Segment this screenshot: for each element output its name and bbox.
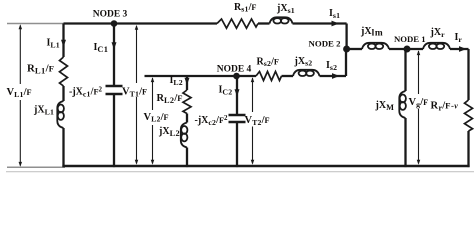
- wire: [282, 75, 294, 77]
- branch C2 vertical wire: [236, 76, 238, 114]
- wire: [450, 48, 469, 50]
- wire rise to node 2: [345, 49, 347, 76]
- wire row2 bus: [145, 75, 257, 77]
- branch L2 vertical wire: [186, 76, 188, 90]
- arrow Ir: [459, 46, 467, 52]
- voltage arrow Vg/F: [418, 51, 420, 164]
- wire: [62, 128, 64, 167]
- voltage arrow VT2/F: [252, 78, 254, 164]
- wire node2 to node1: [347, 48, 362, 50]
- svg-text:NODE 1: NODE 1: [394, 34, 426, 44]
- inductor jXS2: [293, 70, 320, 76]
- node NODE 2: [343, 46, 350, 53]
- arrow IS1: [332, 21, 340, 27]
- wire drop to node 2: [345, 24, 347, 50]
- wire: [62, 86, 64, 101]
- svg-text:jXlm: jXlm: [360, 26, 383, 39]
- arrow IS2: [332, 73, 340, 79]
- svg-text:RL1/F: RL1/F: [27, 63, 54, 76]
- node NODE 4: [233, 73, 240, 80]
- arrow IL2: [185, 78, 190, 85]
- node NODE 1: [404, 46, 411, 53]
- wire: [186, 114, 188, 123]
- svg-text:NODE 3: NODE 3: [93, 10, 128, 20]
- wire: [186, 148, 188, 168]
- wire: [258, 22, 270, 24]
- horizontal page rule: [6, 171, 474, 173]
- wire: [467, 131, 469, 167]
- wire top-left gray feed: [7, 23, 64, 25]
- resistor Rr/F-v: [465, 100, 473, 131]
- branch rotor vertical wire: [467, 49, 469, 100]
- wire bottom-left gray return: [7, 166, 65, 168]
- resistor RL1/F: [60, 57, 68, 86]
- voltage arrow VT1/F: [136, 26, 138, 164]
- wire: [113, 95, 115, 167]
- wire: [293, 22, 347, 24]
- resistor RL2/F: [183, 90, 191, 114]
- wire: [389, 48, 423, 50]
- inductor jXM: [399, 91, 406, 118]
- inductor jXS1: [270, 17, 293, 23]
- inductor jXL2: [181, 123, 188, 148]
- wire: [320, 75, 347, 77]
- node NODE 3: [111, 20, 118, 27]
- arrow IC2: [235, 89, 240, 96]
- arrow IC1: [112, 42, 117, 49]
- branch L1 vertical wire: [62, 24, 64, 58]
- wire: [236, 123, 238, 167]
- svg-text:NODE 2: NODE 2: [309, 38, 342, 48]
- voltage arrow VL1/F: [19, 26, 21, 166]
- wire top bus: [64, 22, 218, 24]
- inductor jXlm: [362, 43, 389, 49]
- arrow IL1: [61, 40, 66, 47]
- wire: [404, 118, 406, 167]
- wire bottom bus: [62, 165, 469, 167]
- inductor jXr: [423, 43, 450, 49]
- svg-text:NODE 4: NODE 4: [217, 65, 252, 75]
- resistor Rs1/F: [217, 19, 258, 28]
- capacitor -jXc1/F2 plates: [106, 85, 123, 87]
- capacitor -jXc2/F2 plates: [229, 114, 246, 116]
- branch jXM vertical wire: [404, 49, 406, 91]
- branch C1 vertical wire: [113, 24, 115, 86]
- inductor jXL1: [57, 101, 64, 128]
- resistor Rs2/F: [256, 72, 282, 81]
- voltage arrow VL2/F: [152, 78, 154, 164]
